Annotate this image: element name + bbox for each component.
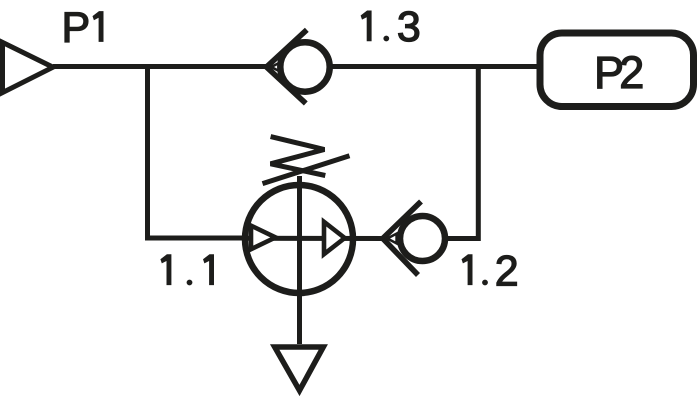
regulator right arrow triangle [324,222,345,254]
svg-text:2: 2 [495,247,519,295]
wire: left branch down from top line [148,67,244,239]
wire: right branch down from top line [448,67,478,239]
pressure regulator 1.1 body circle [245,185,353,293]
spring crossing stroke [263,156,350,184]
label 1.2 [462,247,519,295]
svg-text:3: 3 [397,3,421,51]
regulator flow line (horizontal through body) [243,236,386,241]
label P2 [594,47,644,98]
check valve 1.3 seat lines [267,30,307,104]
regulator control line (vertical through body) [297,176,302,344]
check valve 1.2 ball circle [400,216,445,261]
spring zigzag above regulator [271,137,326,176]
svg-text:2: 2 [619,47,644,98]
port P2 rounded box [540,33,694,107]
check valve 1.3 poppet triangle [271,62,280,72]
regulator left arrow triangle [251,226,276,250]
label 1.1 [160,254,214,285]
wire: P1 to check valve 1.3 seat [53,64,272,69]
check valve 1.3 ball circle [280,42,329,91]
check valve 1.2 seat lines [383,202,421,276]
exhaust triangle below regulator [275,347,324,391]
svg-text:P: P [62,4,91,52]
label P1 [62,4,104,52]
wire: check valve 1.3 to port P2 [331,64,540,69]
label 1.3 [361,3,421,51]
port P1 input triangle [3,42,54,92]
check valve 1.2 poppet triangle [387,234,396,244]
